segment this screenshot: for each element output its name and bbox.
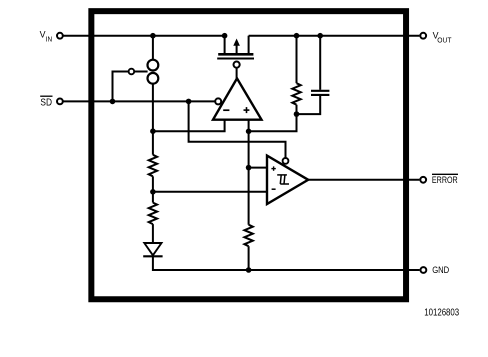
resistor R3 (feedback node to GND): [244, 225, 252, 247]
wire comparator output to ERROR terminal: [308, 179, 419, 181]
IC boundary box: [91, 11, 406, 299]
terminal VOUT: [420, 33, 426, 39]
transistor Q1 channel bar: [218, 53, 253, 56]
terminal ERROR: [420, 177, 426, 183]
node B junction: [150, 189, 156, 195]
junction top rail at Q1 source: [222, 33, 228, 39]
svg-text:IN: IN: [46, 35, 52, 44]
svg-text:OUT: OUT: [437, 36, 452, 45]
wire gate bubble to op-amp output: [236, 68, 238, 79]
svg-text:GND: GND: [432, 265, 449, 275]
label SD with overline: [40, 96, 52, 108]
op-amp U1 plus label: [244, 107, 250, 113]
transistor Q1 gate bubble: [234, 62, 240, 68]
wire VIN rail: [64, 35, 225, 37]
wire GND rail: [153, 269, 420, 271]
transistor Q1 left leg (source): [224, 36, 226, 55]
comparator U2 plus label: [271, 166, 275, 170]
op-amp U1 enable bubble: [215, 98, 221, 104]
current source I1: [148, 60, 159, 84]
wire R3 to GND rail: [248, 246, 250, 270]
diode D1: [143, 243, 162, 256]
wire R1 to node B: [152, 176, 154, 202]
svg-text:10126803: 10126803: [424, 308, 459, 319]
wire left chain top (VIN to current source): [152, 36, 154, 60]
wire op-amp inverting input to node A: [153, 120, 225, 132]
comparator U2 hysteresis symbol: [277, 175, 289, 184]
comparator plus junction: [246, 165, 252, 171]
transistor Q1 right leg (drain): [248, 36, 250, 55]
transistor Q1 body arrow: [236, 44, 238, 54]
bubble on current source control: [129, 69, 135, 75]
junction top rail at current source: [150, 33, 156, 39]
wire comparator inverting input from node B: [153, 191, 267, 193]
svg-text:ERROR: ERROR: [432, 175, 458, 186]
terminal GND: [421, 267, 427, 273]
comparator U2 minus label: [272, 188, 276, 190]
label ERROR with overline: [432, 174, 458, 186]
feedback node junction: [246, 129, 252, 135]
wire SD rail: [64, 100, 216, 102]
wire capacitor bottom to R4 bottom: [297, 96, 321, 114]
label VOUT: [433, 30, 452, 45]
wire current source to node A: [152, 84, 154, 155]
R4/C1 midpoint junction: [294, 111, 300, 117]
wire SD branch to current source bubble: [113, 72, 129, 102]
op-amp U1 minus label: [223, 109, 229, 111]
wire feedback node to R/C midpoint: [249, 114, 297, 131]
capacitor C1 (VOUT to feedback node): [319, 36, 321, 90]
svg-text:SD: SD: [40, 97, 52, 108]
op-amp U1 error amplifier: [213, 78, 262, 119]
resistor R1 (node A to node B): [149, 155, 157, 177]
terminal SD: [57, 99, 63, 105]
wire VOUT rail: [249, 35, 420, 37]
wire diode to GND rail: [152, 256, 154, 271]
wire SD to comparator enable: [189, 101, 286, 158]
resistor R4 (VOUT to feedback node): [296, 36, 298, 83]
comparator U2: [267, 156, 308, 204]
junction SD rail at bubble branch: [110, 99, 116, 105]
wire comparator non-inverting input: [249, 167, 267, 169]
wire op-amp non-inverting input / feedback chain: [248, 120, 250, 225]
wire bubble to current source: [134, 71, 147, 73]
GND rail junction: [246, 267, 252, 273]
transistor Q1 gate bar: [217, 58, 254, 60]
label VIN: [40, 29, 53, 44]
junction VOUT rail at C1: [317, 33, 323, 39]
junction VOUT rail at R4: [294, 33, 300, 39]
terminal VIN: [57, 33, 63, 39]
resistor R2 (node B to diode): [149, 203, 157, 225]
node A junction: [150, 128, 156, 134]
junction SD rail at enable branch: [186, 99, 192, 105]
wire R2 to diode D1: [152, 224, 154, 243]
comparator U2 enable bubble: [283, 158, 289, 164]
